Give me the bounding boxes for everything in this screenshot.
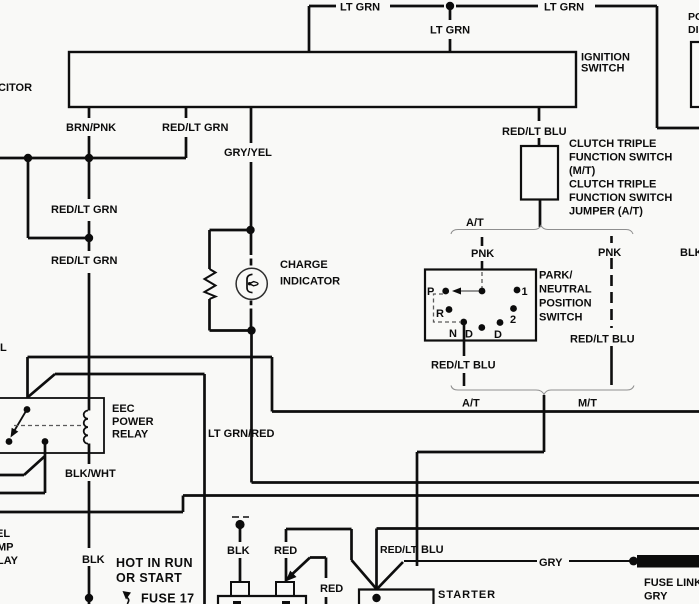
wire line B diagonal	[28, 374, 205, 397]
relay dashed link	[14, 425, 82, 427]
terminal lug BLK	[231, 582, 249, 596]
fuse arrow squiggle	[127, 597, 131, 604]
svg-text:POW: POW	[688, 11, 699, 23]
wire lamp bottom	[250, 301, 253, 331]
contact D2 dot	[497, 319, 504, 326]
svg-text:POSITION: POSITION	[539, 298, 592, 310]
svg-text:LT GRN: LT GRN	[340, 2, 380, 14]
wire coil top	[88, 398, 91, 411]
clutch triple function switch box	[521, 146, 558, 200]
svg-text:HOT IN RUN: HOT IN RUN	[116, 556, 193, 570]
contact N dot	[460, 319, 467, 326]
svg-text:BLU: BLU	[421, 544, 444, 556]
svg-text:OR START: OR START	[116, 571, 182, 585]
svg-text:CLUTCH TRIPLE: CLUTCH TRIPLE	[569, 179, 656, 191]
wire BLK drop	[239, 529, 242, 582]
wire LT GRN drop to ignition switch	[449, 6, 452, 52]
svg-text:BRN/PNK: BRN/PNK	[66, 122, 116, 134]
svg-text:D: D	[494, 329, 502, 341]
node fuse link	[629, 557, 638, 566]
contact D1 dot	[478, 324, 485, 331]
wire N out	[463, 322, 466, 356]
node B	[85, 154, 93, 162]
contact P dot	[442, 288, 449, 295]
node starter post	[372, 594, 380, 602]
svg-text:A/T: A/T	[466, 217, 484, 229]
wire bottom left bus	[0, 496, 699, 513]
brace lower	[451, 386, 634, 395]
svg-text:RED/LT BLU: RED/LT BLU	[570, 334, 635, 346]
node A	[24, 154, 32, 162]
svg-text:MP: MP	[0, 542, 14, 554]
svg-text:FUSE 17: FUSE 17	[141, 592, 195, 604]
relay contact dot right	[42, 438, 49, 445]
svg-text:BLK: BLK	[227, 545, 250, 557]
power distribution box (partial, top right)	[691, 42, 699, 107]
brace upper	[451, 226, 633, 235]
node BLK bottom	[85, 594, 93, 602]
wire BRN/PNK	[88, 107, 91, 158]
svg-text:RELAY: RELAY	[112, 429, 149, 441]
wire RED/LT GRN from ignition	[185, 107, 188, 158]
starter relay box	[359, 590, 434, 604]
wire horizontal feed left	[0, 157, 186, 160]
svg-text:PNK: PNK	[471, 248, 494, 260]
dashed path P to N	[434, 294, 461, 322]
charge indicator lamp	[236, 268, 267, 299]
svg-text:GRY/YEL: GRY/YEL	[224, 147, 272, 159]
wire charge down to H1	[250, 331, 253, 483]
svg-text:JUMPER (A/T): JUMPER (A/T)	[569, 206, 643, 218]
wire lamp drop	[250, 230, 253, 266]
svg-text:1: 1	[522, 286, 528, 298]
svg-text:2: 2	[510, 314, 516, 326]
contact 2 dot	[510, 305, 517, 312]
clutch stem wire	[539, 199, 542, 227]
svg-text:FUNCTION SWITCH: FUNCTION SWITCH	[569, 192, 672, 204]
svg-text:INDICATOR: INDICATOR	[280, 276, 340, 288]
svg-text:RED/LT GRN: RED/LT GRN	[51, 255, 117, 267]
wire RED 1	[286, 529, 377, 589]
svg-text:LAY: LAY	[0, 555, 19, 567]
relay blade	[13, 410, 27, 433]
relay contact dot left	[6, 438, 13, 445]
wire M/T link	[417, 395, 544, 566]
svg-text:DIST: DIST	[688, 24, 699, 36]
wire RED/LT BLU right solid	[610, 346, 613, 385]
battery box	[218, 596, 306, 604]
svg-text:RED/LT GRN: RED/LT GRN	[51, 204, 117, 216]
svg-text:CITOR: CITOR	[0, 82, 32, 94]
svg-text:BLK/WHT: BLK/WHT	[65, 468, 116, 480]
wire GRY	[404, 560, 630, 562]
fuse link bar	[637, 555, 699, 568]
svg-text:PARK/: PARK/	[539, 270, 572, 282]
svg-text:RED/LT GRN: RED/LT GRN	[162, 122, 228, 134]
svg-text:A/T: A/T	[462, 398, 480, 410]
wire PNK into box dashed	[481, 272, 483, 288]
wire left loop	[28, 158, 89, 238]
svg-text:LT GRN: LT GRN	[430, 25, 470, 37]
relay coil	[84, 411, 88, 444]
svg-text:GRY: GRY	[644, 591, 668, 603]
wire A/T dash	[463, 373, 466, 386]
wire GRY diagonal from post	[377, 562, 404, 590]
wire relay output	[0, 442, 45, 494]
svg-text:(M/T): (M/T)	[569, 165, 596, 177]
svg-text:SWITCH: SWITCH	[581, 63, 624, 75]
node charge bottom	[247, 326, 255, 334]
wire LT GRN top bus	[309, 6, 699, 128]
svg-text:BLK: BLK	[680, 247, 699, 259]
svg-text:RED/LT BLU: RED/LT BLU	[502, 126, 567, 138]
svg-text:NEUTRAL: NEUTRAL	[539, 284, 592, 296]
node C	[85, 234, 93, 242]
resistor R (charge indicator shunt)	[205, 269, 216, 299]
svg-text:M/T: M/T	[578, 398, 597, 410]
svg-text:N: N	[449, 328, 457, 340]
wire RED/LT BLU starter feed	[377, 529, 699, 590]
ignition switch box	[69, 52, 576, 107]
svg-text:PNK: PNK	[598, 247, 621, 259]
svg-text:RED/LT: RED/LT	[380, 544, 418, 556]
svg-text:GRY: GRY	[539, 557, 563, 569]
svg-text:CHARGE: CHARGE	[280, 259, 328, 271]
svg-text:EEC: EEC	[112, 403, 135, 415]
svg-text:P: P	[427, 286, 434, 298]
svg-text:FUNCTION SWITCH: FUNCTION SWITCH	[569, 152, 672, 164]
svg-text:R: R	[436, 308, 444, 320]
terminal lug RED	[276, 582, 294, 596]
svg-text:LT GRN: LT GRN	[544, 2, 584, 14]
relay contact pin dot	[24, 406, 31, 413]
BLK terminal dashes	[232, 516, 249, 518]
svg-text:EL: EL	[0, 528, 10, 540]
wire H1 to right edge	[252, 481, 699, 484]
svg-text:BLK: BLK	[82, 554, 105, 566]
switch center dot	[479, 288, 486, 295]
contact 1 dot	[514, 287, 521, 294]
wire RED/LT BLU ignition to clutch	[538, 107, 541, 146]
BLK terminal dot	[235, 520, 244, 529]
EEC power relay box	[0, 398, 104, 453]
svg-text:RED/LT BLU: RED/LT BLU	[431, 360, 496, 372]
wire RED 2	[287, 558, 326, 604]
contact R dot	[446, 306, 453, 313]
svg-text:LT GRN/RED: LT GRN/RED	[208, 428, 274, 440]
svg-text:FUSE LINK: FUSE LINK	[644, 577, 699, 589]
svg-text:D: D	[465, 329, 473, 341]
switch arrow	[456, 290, 480, 292]
wire BLK/WHT coil down	[88, 444, 91, 604]
wire PNK left dashes	[481, 237, 484, 270]
svg-text:SWITCH: SWITCH	[539, 312, 582, 324]
wire line A	[28, 357, 699, 412]
wire GRY/YEL	[250, 107, 253, 230]
svg-text:RED: RED	[274, 545, 297, 557]
wire resistor branch	[210, 230, 253, 331]
svg-text:POWER: POWER	[112, 416, 154, 428]
svg-text:RED: RED	[320, 583, 343, 595]
svg-text:STARTER: STARTER	[438, 589, 496, 601]
node charge top	[246, 226, 254, 234]
wire RED/LT GRN down to relay	[88, 158, 91, 398]
node top junction	[446, 2, 454, 10]
park/neutral position switch box	[425, 270, 536, 341]
wire LT GRN/RED down	[203, 374, 206, 604]
svg-text:L: L	[0, 342, 7, 354]
wire PNK right dashes	[610, 236, 613, 328]
svg-text:CLUTCH TRIPLE: CLUTCH TRIPLE	[569, 138, 656, 150]
